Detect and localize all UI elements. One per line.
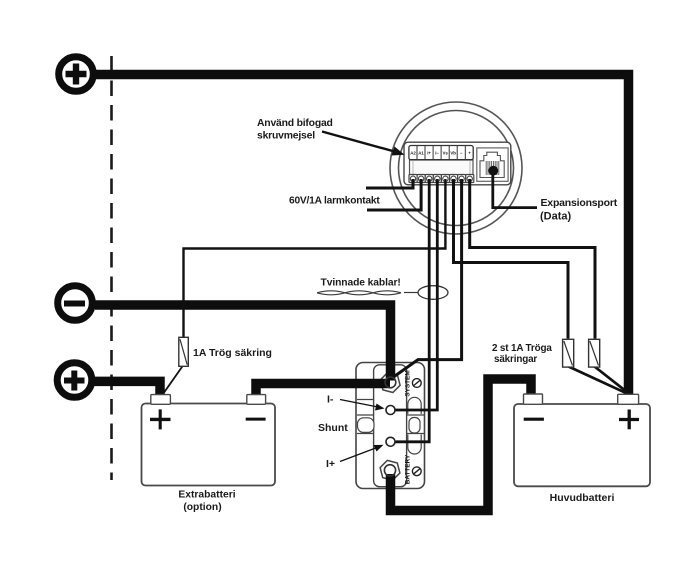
wire: positive supply cable (thick) [94, 75, 629, 400]
svg-text:Använd bifogad: Använd bifogad [257, 118, 333, 129]
fuse F3 (1A slow) [589, 339, 600, 367]
svg-text:A1: A1 [418, 151, 424, 156]
svg-text:Tvinnade kablar!: Tvinnade kablar! [321, 278, 401, 289]
main battery + mark [619, 418, 639, 421]
wire: extra battery - to shunt SYSTEM (thick) [256, 384, 390, 399]
shunt screw SYSTEM [412, 379, 421, 388]
shunt I+ sense terminal [386, 437, 395, 446]
wire: terminal Vs to fuse F1 [184, 179, 446, 338]
wire: fuse F2 to main battery + (diagonal) [569, 367, 626, 393]
wire: fuse F1 to extra battery + (diagonal) [163, 366, 183, 395]
svg-text:SYSTEM: SYSTEM [405, 370, 412, 396]
svg-text:Vs: Vs [443, 151, 449, 156]
twisted pair symbol [317, 291, 418, 295]
wire: terminal I- to shunt I- sense [395, 179, 438, 410]
shunt nut circles over wires [385, 377, 396, 388]
wire: extra battery + cable (thick) [94, 381, 160, 397]
wire: terminal Vb to fuse F2 [454, 179, 569, 339]
extra battery + tab [151, 395, 171, 405]
svg-text:Expansionsport: Expansionsport [541, 197, 618, 209]
svg-text:I+: I+ [326, 458, 335, 470]
node: expansion port plug [488, 166, 498, 176]
svg-text:skruvmejsel: skruvmejsel [257, 131, 315, 142]
shunt body [356, 363, 425, 489]
svg-text:Vb: Vb [450, 151, 456, 156]
wire: terminal A2 to alarm contact [366, 179, 413, 188]
terminal label strip A2 A1 I+ I- Vs Vb - + [409, 146, 473, 160]
svg-text:Extrabatteri: Extrabatteri [178, 490, 235, 501]
expansion port (RJ socket) [477, 148, 508, 181]
svg-text:1A Trög säkring: 1A Trög säkring [193, 347, 272, 359]
svg-text:säkringar: säkringar [494, 354, 537, 365]
wire: fuse F3 to main battery + (diagonal) [595, 367, 629, 393]
fuse F1 (1A slow) [179, 337, 189, 366]
wire: expansion port data cable [493, 170, 537, 208]
shunt screw BATTERY [412, 467, 421, 476]
node: supply - terminal circle [58, 286, 93, 321]
extra battery - mark [246, 418, 266, 421]
svg-text:+: + [468, 151, 471, 156]
main battery - tab [524, 394, 543, 404]
monitor outer circle [390, 102, 522, 234]
svg-text:2 st 1A Tröga: 2 st 1A Tröga [492, 343, 552, 354]
svg-text:Shunt: Shunt [318, 422, 348, 434]
shunt BATTERY hex nut [380, 460, 400, 480]
svg-text:(Data): (Data) [540, 211, 572, 223]
wire: shunt BATTERY to main battery - (thick) [391, 379, 532, 511]
svg-text:I-: I- [327, 394, 334, 406]
dashed boundary line [110, 56, 113, 480]
arrow to terminal block [322, 132, 405, 156]
svg-text:Huvudbatteri: Huvudbatteri [550, 492, 615, 504]
monitor inner circle [399, 111, 514, 226]
svg-text:BATTERY: BATTERY [405, 454, 412, 484]
terminal screws row [409, 175, 474, 183]
main battery body [514, 394, 650, 486]
shunt I- sense terminal [386, 406, 395, 415]
terminal block container [404, 142, 511, 185]
fuse F2 (1A slow) [563, 339, 574, 367]
extra battery + mark [150, 418, 171, 421]
svg-text:−: − [460, 151, 463, 156]
svg-text:I−: I− [435, 151, 439, 156]
node: extra battery + supply circle [57, 363, 92, 398]
node: supply + terminal circle [59, 57, 94, 92]
svg-text:(option): (option) [183, 502, 221, 513]
wire: terminal minus to shunt SYSTEM [394, 179, 462, 377]
extra battery - tab [247, 395, 266, 405]
svg-text:A2: A2 [410, 151, 416, 156]
shunt SYSTEM hex nut [380, 373, 400, 393]
twisted pair ellipse marker [418, 286, 448, 300]
svg-text:I+: I+ [427, 151, 431, 156]
main battery - mark [524, 418, 544, 421]
wire: terminal plus to fuse F3 [470, 179, 595, 339]
main battery + tab [618, 394, 639, 404]
wire: terminal I+ to shunt I+ sense [395, 179, 430, 442]
extra battery body [142, 395, 276, 486]
svg-text:60V/1A larmkontakt: 60V/1A larmkontakt [289, 196, 380, 207]
wire: negative supply cable to shunt (thick) [95, 305, 391, 381]
wire: terminal A1 to alarm contact [367, 179, 421, 210]
